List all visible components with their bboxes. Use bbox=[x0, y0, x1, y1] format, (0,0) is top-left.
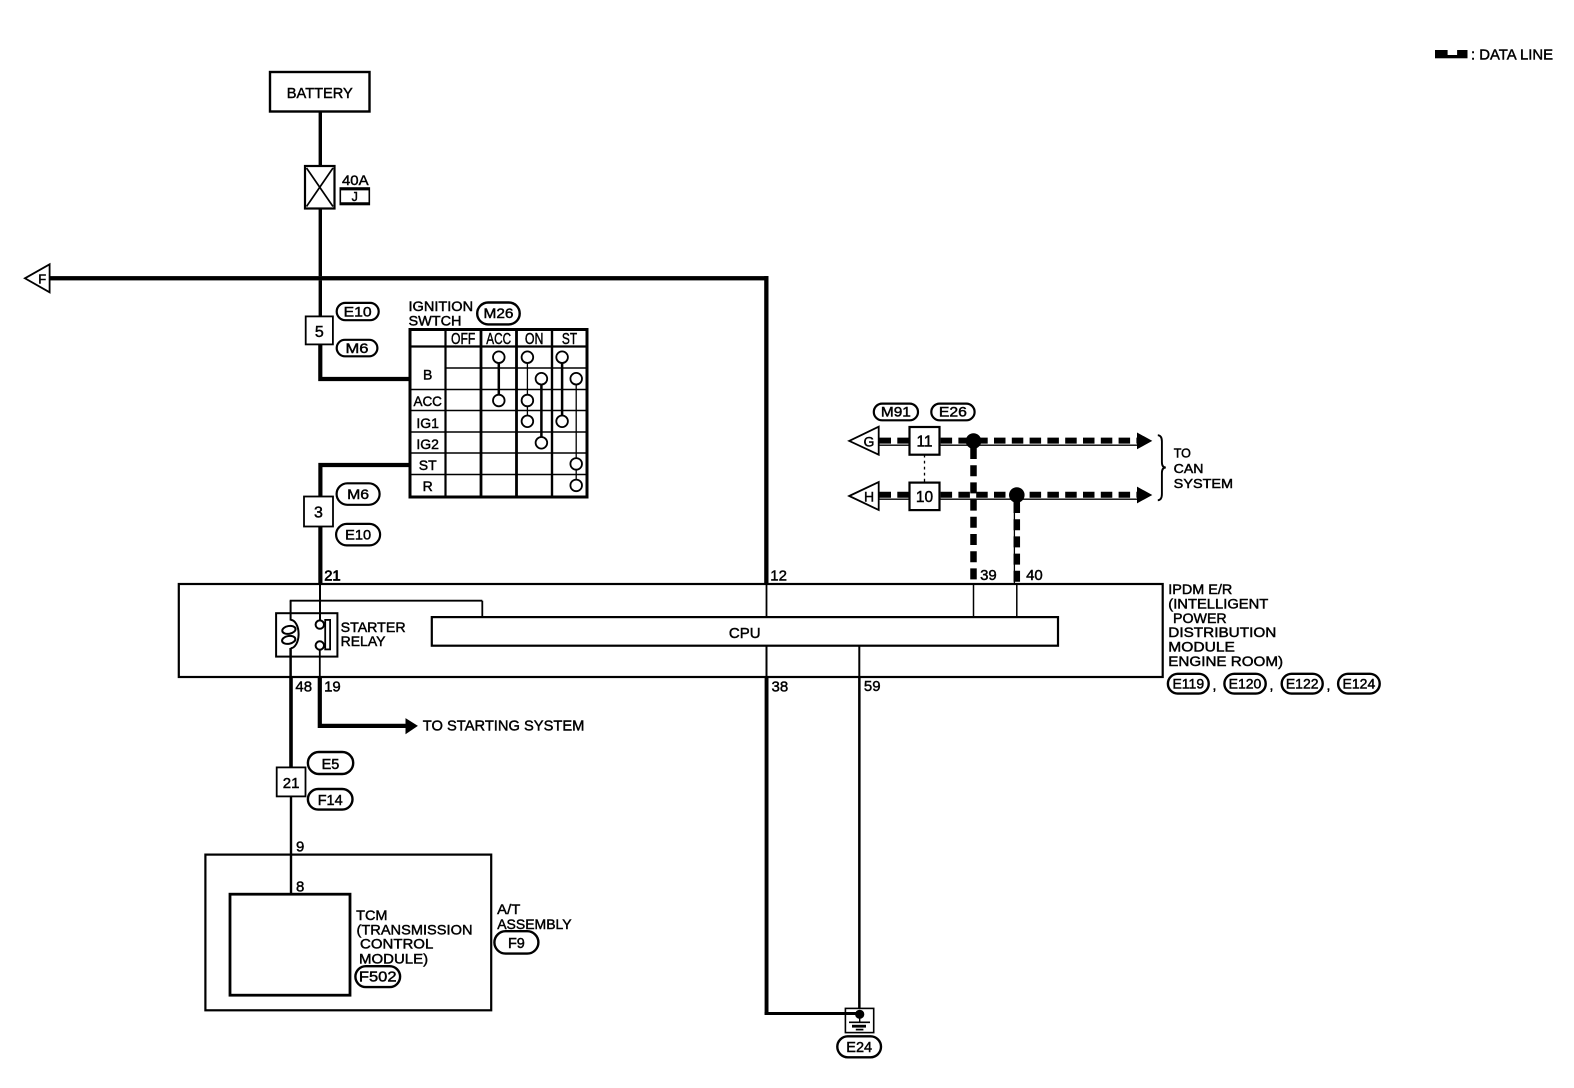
svg-text:ASSEMBLY: ASSEMBLY bbox=[497, 916, 572, 932]
svg-text:F14: F14 bbox=[318, 793, 343, 809]
svg-text:IPDM E/R: IPDM E/R bbox=[1168, 582, 1232, 597]
svg-text:M26: M26 bbox=[484, 305, 514, 321]
svg-text:MODULE): MODULE) bbox=[359, 951, 428, 967]
svg-text:,: , bbox=[1270, 677, 1274, 693]
svg-text:IGNITION: IGNITION bbox=[409, 299, 474, 314]
svg-text:OFF: OFF bbox=[451, 331, 475, 348]
svg-text:BATTERY: BATTERY bbox=[287, 85, 353, 102]
svg-text:38: 38 bbox=[772, 679, 789, 696]
svg-text:E26: E26 bbox=[939, 405, 967, 420]
svg-text:CAN: CAN bbox=[1174, 462, 1204, 476]
svg-text:A/T: A/T bbox=[497, 901, 521, 917]
svg-text:59: 59 bbox=[864, 678, 881, 695]
svg-text:B: B bbox=[423, 367, 432, 383]
svg-text:39: 39 bbox=[980, 567, 997, 584]
svg-text:E122: E122 bbox=[1286, 676, 1319, 692]
svg-text:IG1: IG1 bbox=[416, 415, 439, 431]
svg-text:IG2: IG2 bbox=[416, 436, 439, 452]
svg-text:E124: E124 bbox=[1343, 676, 1376, 692]
svg-text:M91: M91 bbox=[881, 405, 911, 420]
svg-text:ENGINE ROOM): ENGINE ROOM) bbox=[1168, 654, 1283, 669]
svg-text:CONTROL: CONTROL bbox=[360, 936, 434, 952]
svg-text:ACC: ACC bbox=[413, 393, 442, 409]
svg-text:(INTELLIGENT: (INTELLIGENT bbox=[1168, 596, 1268, 611]
svg-text:CPU: CPU bbox=[729, 625, 761, 642]
svg-text:TO: TO bbox=[1174, 447, 1191, 461]
svg-text:,: , bbox=[1213, 677, 1217, 693]
svg-text:M6: M6 bbox=[346, 340, 369, 356]
svg-text:F: F bbox=[38, 272, 46, 287]
svg-text:5: 5 bbox=[315, 324, 324, 341]
svg-text:12: 12 bbox=[770, 568, 787, 585]
svg-text:E5: E5 bbox=[322, 757, 340, 773]
svg-text:SWTCH: SWTCH bbox=[409, 314, 462, 329]
svg-text:TO STARTING SYSTEM: TO STARTING SYSTEM bbox=[423, 718, 585, 735]
svg-text:9: 9 bbox=[296, 839, 304, 856]
svg-text:M6: M6 bbox=[347, 486, 369, 502]
svg-text:F502: F502 bbox=[359, 970, 397, 986]
svg-text:H: H bbox=[864, 489, 874, 505]
svg-text:ST: ST bbox=[562, 331, 578, 348]
svg-text:MODULE: MODULE bbox=[1168, 640, 1235, 655]
svg-text:E24: E24 bbox=[846, 1040, 872, 1056]
svg-text:DISTRIBUTION: DISTRIBUTION bbox=[1168, 625, 1276, 640]
svg-text:ON: ON bbox=[525, 331, 544, 348]
svg-text:E10: E10 bbox=[345, 527, 371, 543]
svg-text:POWER: POWER bbox=[1173, 611, 1227, 626]
svg-text:10: 10 bbox=[916, 489, 934, 506]
svg-text:G: G bbox=[864, 434, 875, 450]
svg-text:R: R bbox=[423, 478, 433, 494]
svg-text:3: 3 bbox=[314, 505, 323, 522]
svg-text:E10: E10 bbox=[344, 304, 372, 320]
svg-text:E119: E119 bbox=[1172, 676, 1204, 692]
svg-text:SYSTEM: SYSTEM bbox=[1174, 477, 1233, 491]
svg-text:40: 40 bbox=[1026, 567, 1043, 584]
svg-text:RELAY: RELAY bbox=[341, 633, 387, 649]
svg-text:J: J bbox=[352, 190, 358, 204]
svg-text:21: 21 bbox=[324, 568, 341, 585]
svg-text:ST: ST bbox=[419, 457, 437, 473]
svg-text:40A: 40A bbox=[342, 172, 369, 188]
svg-text:E120: E120 bbox=[1229, 676, 1262, 692]
svg-text:,: , bbox=[1327, 677, 1331, 693]
svg-text:ACC: ACC bbox=[486, 331, 511, 348]
svg-text:11: 11 bbox=[916, 434, 932, 451]
svg-text:21: 21 bbox=[283, 775, 300, 792]
svg-text:48: 48 bbox=[295, 679, 312, 696]
svg-text:F9: F9 bbox=[508, 936, 525, 952]
svg-text:: DATA LINE: : DATA LINE bbox=[1471, 48, 1553, 64]
svg-text:19: 19 bbox=[324, 679, 341, 696]
